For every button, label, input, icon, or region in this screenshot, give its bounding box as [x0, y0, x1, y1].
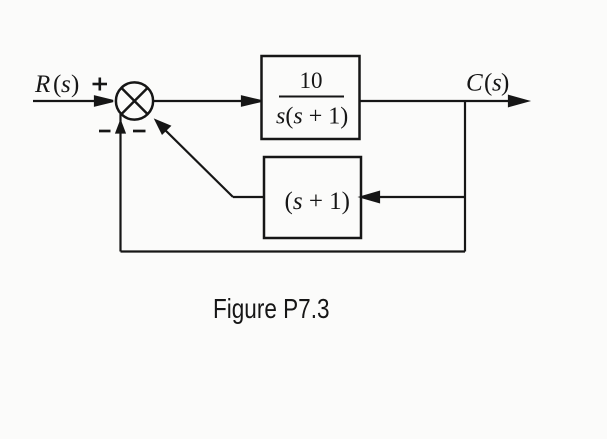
svg-text:s: s [61, 71, 71, 98]
label R(s) [34, 71, 79, 98]
wire block H to summing junction (diagonal) [156, 121, 264, 198]
svg-text:): ) [501, 70, 509, 97]
plus sign [93, 78, 108, 91]
svg-text:s(s + 1): s(s + 1) [276, 104, 348, 130]
wire input R(s) to summing junction [33, 97, 113, 106]
svg-text:R: R [34, 71, 50, 98]
svg-text:C: C [466, 70, 483, 97]
wire block G to output C(s) [360, 96, 528, 106]
node takeoff and wire down [464, 101, 466, 252]
minus sign right [133, 130, 146, 133]
svg-text:(s + 1): (s + 1) [285, 188, 351, 215]
svg-text:): ) [71, 71, 79, 98]
label C(s) [466, 70, 509, 97]
minus sign left [99, 130, 111, 133]
block G 10/s(s+1) [262, 56, 360, 139]
svg-text:Figure P7.3: Figure P7.3 [213, 293, 330, 324]
block H (s+1) [264, 157, 361, 238]
wire summing junction to block G [153, 97, 262, 106]
wire takeoff to block H [362, 192, 466, 202]
svg-text:10: 10 [300, 68, 323, 93]
summing junction [116, 82, 153, 119]
wire outer feedback loop [117, 114, 466, 252]
